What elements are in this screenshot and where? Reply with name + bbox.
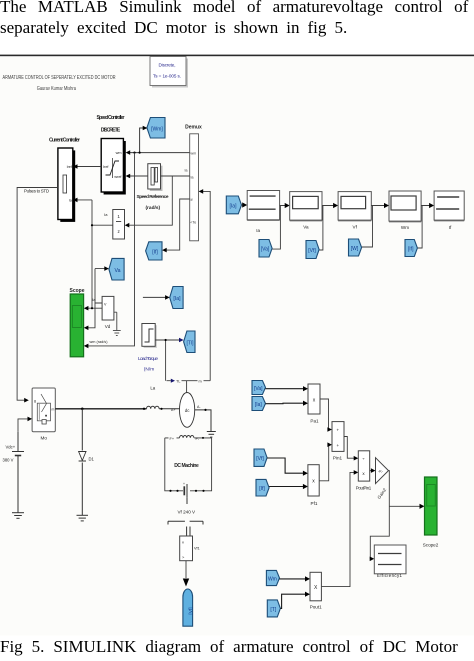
svg-text:wref: wref (114, 175, 122, 179)
svg-text:Ia: Ia (191, 175, 194, 179)
horizontal rule (0, 55, 474, 57)
svg-text:Vf: Vf (353, 225, 358, 230)
wire gain to Scope2 and down to Efficiency1 (370, 471, 421, 559)
DC source Vdc 380 V (12, 432, 24, 513)
field battery Vf (184, 484, 187, 504)
Demux block (185, 125, 203, 241)
svg-text:wm (rad/s): wm (rad/s) (90, 340, 109, 344)
scope display block Vf (338, 192, 371, 230)
ground below Vd (113, 312, 121, 335)
svg-text:wm: wm (116, 151, 122, 155)
wire block1 to block2 with tap down to [Va] from tag (272, 206, 286, 250)
svg-text:TL: TL (176, 380, 180, 384)
svg-text:Ia: Ia (256, 228, 260, 233)
from tag [Vf] (power calc) (254, 449, 267, 466)
sum block Pin1 (332, 422, 344, 461)
svg-text:Current Controller: Current Controller (49, 138, 80, 144)
wire: load torque to [Tl] and down to machine TL (155, 340, 180, 381)
series inductor La (147, 406, 181, 409)
svg-text:Scope2: Scope2 (423, 543, 439, 548)
svg-text:+: + (183, 482, 185, 486)
wire into scope block 1 (242, 204, 244, 206)
divide block PoutPin1 (356, 451, 372, 491)
from tag [If] (power calc) (256, 479, 269, 496)
svg-text:g: g (34, 399, 36, 403)
gain block Gain2 (376, 458, 389, 500)
svg-text:[Ia]: [Ia] (255, 402, 263, 408)
svg-text:Wm: Wm (268, 577, 277, 583)
wire Pout1 up to divide (321, 472, 354, 586)
Vd block (102, 296, 114, 328)
svg-text:Pout1: Pout1 (310, 605, 322, 610)
svg-text:Pulses to STD: Pulses to STD (24, 188, 49, 193)
svg-text:Demux: Demux (185, 125, 202, 131)
MOSFET block (32, 388, 55, 441)
from tag [If] (405, 240, 417, 257)
svg-text:Vdc+: Vdc+ (6, 445, 16, 450)
svg-text:Efficiency1: Efficiency1 (377, 573, 403, 578)
field supply loop wires (165, 438, 212, 491)
powergui Discrete block (150, 57, 188, 88)
Scope (green) (69, 288, 84, 357)
svg-text:1: 1 (117, 214, 120, 219)
product block Pout1 (310, 572, 322, 609)
svg-text:La: La (150, 386, 155, 391)
field winding F+ F- (165, 435, 212, 437)
svg-text:[W]: [W] (351, 246, 359, 252)
svg-text:Load Torque: Load Torque (138, 356, 158, 362)
svg-text:[If]: [If] (152, 249, 158, 255)
from tag [Te] (power calc) (267, 600, 280, 617)
wire: Vf1 down to [Vf] capsule (185, 561, 187, 578)
goto tag [Ia] (170, 287, 183, 309)
svg-text:m: m (199, 380, 202, 384)
wire: demux If output to goto [If] (166, 199, 190, 250)
caption (0, 637, 458, 657)
svg-text:Wm: Wm (401, 225, 409, 230)
svg-text:ARMATURE CONTROL OF SEPERATELY: ARMATURE CONTROL OF SEPERATELY EXCITED D… (3, 75, 116, 81)
from tag [Va] (259, 240, 272, 258)
scope display block Ia (247, 191, 279, 234)
wire: unit delay output to Ia feedback line (77, 200, 113, 308)
svg-text:Gaurav Kumar Mishra: Gaurav Kumar Mishra (37, 86, 76, 92)
from tag [Wm] (349, 239, 362, 256)
svg-text:wm: wm (191, 151, 197, 155)
wire: mosfet source to Vdc battery (18, 419, 29, 432)
svg-text:Iref: Iref (67, 165, 72, 169)
wire: demux wm output to speed controller (129, 152, 190, 154)
product block Pf1 (308, 465, 319, 506)
ground below Vdc (12, 513, 24, 519)
svg-text:m: m (52, 408, 55, 412)
svg-text:+: + (337, 428, 340, 433)
wire Pf1 to sum Pin1 (319, 445, 329, 481)
paragraph line 2 (0, 18, 347, 38)
wire block4 to block5 with tap down to [If] from tag (417, 206, 429, 249)
Load Torque step block (138, 324, 158, 373)
goto capsule [Vf] (183, 589, 194, 626)
voltage measurement block Vf1 (180, 536, 200, 561)
from tag [Ia] (power calc) (252, 397, 266, 411)
svg-text:Speed Controller: Speed Controller (97, 115, 125, 121)
ground right of machine (207, 432, 216, 438)
wire divide to gain (370, 470, 372, 472)
wire: wref line from speed reference / demux Ia line (129, 175, 190, 177)
armature main wire (55, 408, 146, 410)
svg-text:[Va]: [Va] (254, 386, 263, 392)
Scope2 (green) (423, 477, 439, 548)
svg-text:Scope: Scope (69, 288, 84, 294)
scope display block If (434, 191, 464, 230)
svg-text:Ia: Ia (185, 169, 188, 173)
wire: Pulses to STD feedback to mosfet gate (17, 188, 58, 401)
svg-text:[Va]: [Va] (261, 247, 270, 253)
scope display block Wm (389, 191, 421, 230)
svg-text:Ia: Ia (69, 199, 72, 203)
wire: wm tap up to [Wm] (140, 128, 144, 153)
svg-text:v: v (182, 540, 184, 545)
svg-text:DISCRETE: DISCRETE (101, 128, 121, 134)
svg-text:[Tl]: [Tl] (187, 341, 195, 347)
svg-text:F+: F+ (170, 437, 175, 441)
svg-text:PoutPin1: PoutPin1 (356, 486, 372, 491)
svg-text:(N/m: (N/m (144, 367, 154, 373)
ground below D1 (77, 515, 89, 521)
svg-text:Vf1: Vf1 (194, 547, 200, 551)
svg-text:380 V: 380 V (3, 458, 14, 463)
svg-text:(rad/s): (rad/s) (145, 205, 160, 211)
wire: m signal into demux right side (202, 191, 210, 380)
wire: speed controller Iref output to current controller (77, 166, 102, 168)
wire: wm line down to scope input 3 (88, 153, 135, 346)
svg-text:-K-: -K- (378, 469, 384, 473)
svg-text:[Vf]: [Vf] (256, 456, 264, 462)
unit delay block 1/z (104, 210, 124, 240)
Current Controller block U2 (49, 138, 80, 222)
from tag [Va] (power calc) (252, 381, 266, 395)
wires into product Pout1 (280, 579, 307, 609)
wire Pin1 to divide (344, 437, 355, 459)
diode D1 branch (79, 409, 86, 516)
svg-text:[Ia]: [Ia] (173, 296, 181, 302)
svg-text:Va: Va (303, 225, 309, 230)
wire block3 to block4 with tap down to [Wm] from tag (362, 206, 386, 248)
goto tag [Tl] (184, 331, 195, 353)
svg-text:[If]: [If] (259, 486, 265, 492)
goto tag [If] (146, 242, 162, 260)
svg-text:Discrete,: Discrete, (159, 63, 176, 68)
wire: demux Ia down to unit delay (128, 176, 172, 225)
from tag [Ia] feeding scope row (226, 196, 241, 214)
product block Pa1 (308, 384, 320, 424)
svg-text:+: + (337, 443, 340, 448)
svg-text:[Vf]: [Vf] (308, 248, 316, 254)
paragraph line 1 (0, 0, 468, 17)
wire into [Ia] (143, 296, 166, 298)
from tag [Wm] (power calc) (266, 570, 279, 585)
svg-text:DC Machine: DC Machine (174, 463, 199, 469)
svg-text:Speed Reference: Speed Reference (137, 194, 169, 200)
wire block2 to block3 with tap down to [Vf] from tag (319, 206, 334, 251)
display block Efficiency1 (374, 545, 406, 578)
svg-text:Pin1: Pin1 (333, 456, 343, 461)
svg-text:[Wm]: [Wm] (151, 127, 163, 133)
svg-text:[Ia]: [Ia] (230, 203, 238, 209)
svg-text:Vd: Vd (105, 324, 111, 329)
svg-text:Pf1: Pf1 (311, 501, 318, 506)
wire: A- to right and ground (195, 410, 211, 432)
svg-text:[If]: [If] (408, 247, 414, 253)
Vf measurement bar (168, 521, 203, 536)
svg-text:Ts = 1e-005 s.: Ts = 1e-005 s. (153, 74, 181, 79)
svg-text:[T]: [T] (270, 607, 276, 613)
svg-text:Iref: Iref (103, 165, 109, 169)
svg-text:Vf 240 V: Vf 240 V (177, 510, 196, 515)
DC machine armature circle (180, 393, 195, 428)
wire: machine top TL/m bar (182, 381, 211, 393)
wire: Va line (Vd block up to [Va], down to scope input 2) (88, 269, 106, 328)
svg-text:Pa1: Pa1 (310, 419, 319, 424)
svg-text:Va: Va (115, 268, 121, 274)
from tag [Vf] (306, 241, 319, 259)
goto tag [Wm] (147, 118, 165, 139)
svg-text:[Vf]: [Vf] (188, 607, 194, 614)
svg-text:dc: dc (185, 408, 190, 413)
wire Pa1 to sum Pin1 (320, 399, 329, 430)
Speed Controller block U1 (97, 115, 126, 195)
svg-text:<Te: <Te (190, 220, 196, 224)
wires into product Pf1 (267, 458, 304, 487)
svg-text:D1: D1 (89, 457, 95, 462)
svg-text:A+: A+ (171, 408, 176, 412)
scope display block Va (290, 192, 322, 230)
svg-text:If: If (191, 198, 193, 202)
goto tag [Va] (109, 258, 124, 280)
Speed Reference block (137, 164, 169, 211)
svg-text:Mo: Mo (41, 436, 48, 441)
wires into product Pa1 (266, 389, 305, 404)
